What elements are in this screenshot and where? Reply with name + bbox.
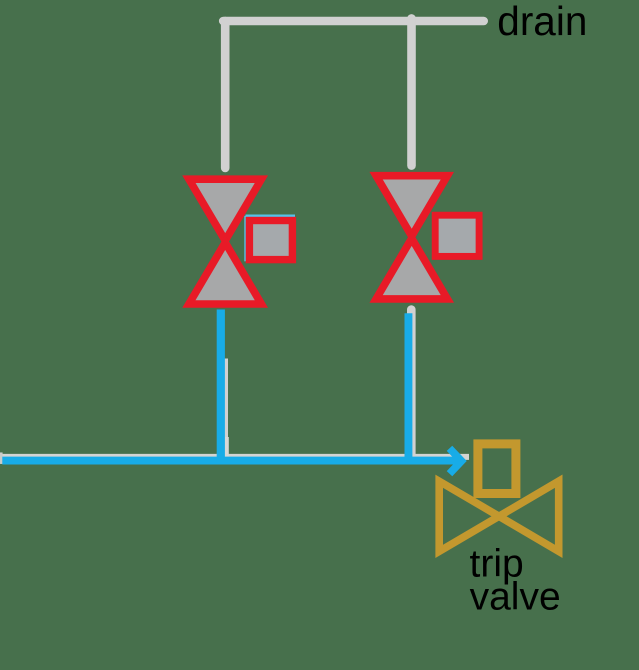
blue riser right (from valve V2 down): [405, 313, 413, 462]
drain valve V2 lower triangle: [376, 238, 447, 299]
svg-text:valve: valve: [470, 575, 561, 618]
cyan offset outline top of square S1: [246, 215, 296, 218]
blue riser left (from valve V1 down): [217, 310, 225, 463]
gray pipe stub below valve V2: [407, 310, 416, 459]
drain valve V1 lower triangle: [189, 243, 262, 305]
trip valve actuator square (gold): [478, 444, 516, 494]
drain valve V2 upper triangle: [376, 176, 447, 237]
blue supply line (horizontal): [2, 457, 456, 465]
svg-text:drain: drain: [497, 0, 587, 44]
gray pipe stub behind left blue riser: [221, 359, 228, 462]
drain header pipe (gray horizontal): [223, 17, 484, 26]
gray stub right of left blue riser at junction: [225, 437, 229, 459]
actuator square S2 of valve V2: [435, 215, 479, 256]
drain valve V1 upper triangle: [189, 179, 262, 240]
trip valve right triangle (gold): [499, 481, 559, 551]
gray pipe tip at left edge: [0, 452, 3, 464]
cyan offset outline left of square S1: [244, 216, 247, 261]
drain riser pipe left (gray vertical to valve V1): [221, 21, 230, 168]
trip valve left triangle (gold): [439, 481, 499, 551]
blue flow arrowhead: [450, 448, 462, 473]
drain riser pipe right (gray vertical to valve V2): [407, 18, 416, 165]
actuator square S1 of valve V1: [249, 221, 292, 260]
gray pipe behind blue supply line (horizontal): [0, 454, 469, 460]
